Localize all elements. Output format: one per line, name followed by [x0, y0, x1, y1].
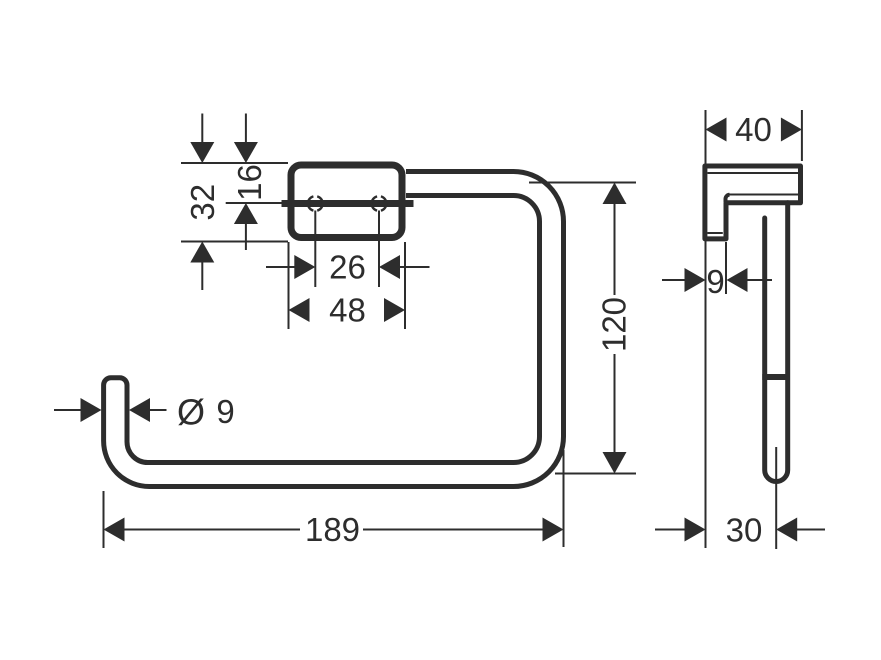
dimension 30 [655, 447, 825, 549]
dimension 120 [529, 183, 636, 474]
svg-text:30: 30 [726, 512, 763, 549]
plate mid bar [282, 200, 414, 207]
hole mark left [308, 196, 323, 210]
dimension 48 [289, 242, 406, 329]
dimension 32 [181, 114, 288, 291]
side inner top line [708, 172, 799, 174]
svg-text:26: 26 [329, 249, 366, 286]
side arm corner [726, 195, 730, 202]
side foot inner line [707, 232, 723, 234]
svg-text:120: 120 [596, 297, 633, 352]
towel ring rod outline [104, 172, 564, 487]
svg-text:9: 9 [216, 393, 234, 430]
mounting plate [291, 165, 402, 238]
side bar joint line [762, 374, 790, 380]
svg-text:48: 48 [329, 292, 366, 329]
dimension 9 (side) [662, 242, 772, 294]
svg-text:9: 9 [706, 263, 724, 300]
hole mark right [372, 196, 387, 210]
svg-text:16: 16 [231, 164, 268, 201]
svg-text:40: 40 [735, 111, 772, 148]
side profile outer contour [705, 166, 801, 239]
dimension 40 [706, 110, 802, 548]
side hanging bar [765, 203, 788, 482]
dimension 16 [226, 114, 288, 251]
svg-text:32: 32 [184, 184, 221, 221]
svg-text:Ø: Ø [177, 392, 205, 433]
dimension 189 [104, 450, 564, 548]
svg-text:189: 189 [305, 511, 360, 548]
side arm top line [725, 195, 798, 199]
dimension 26 [266, 211, 430, 288]
dimension diameter 9 [54, 409, 167, 411]
